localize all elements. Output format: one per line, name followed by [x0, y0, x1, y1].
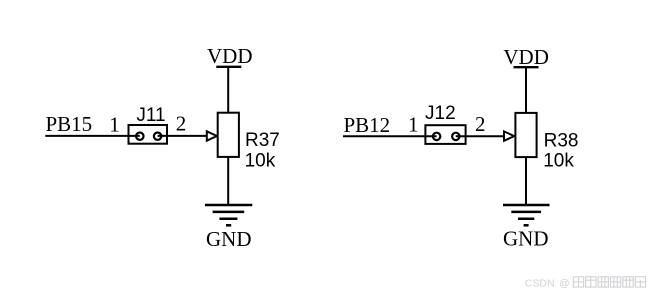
jumper J11 body: [129, 125, 168, 144]
svg-text:CSDN: CSDN: [525, 278, 555, 290]
wire PB15 to J11 pin 1: [45, 135, 140, 137]
svg-text:1: 1: [408, 113, 419, 137]
wire VDD to R37 top: [227, 67, 229, 113]
wiper arrow of R37: [207, 131, 217, 140]
svg-text:PB15: PB15: [46, 112, 93, 136]
wire R37 bottom to ground: [227, 157, 229, 205]
svg-text:VDD: VDD: [503, 45, 549, 69]
svg-text:R38: R38: [544, 130, 579, 151]
svg-text:2: 2: [475, 112, 486, 136]
jumper J12 pin 2 pad: [452, 133, 459, 140]
svg-text:GND: GND: [503, 227, 549, 251]
jumper J12 pin 1 pad: [433, 133, 440, 140]
jumper J11 pin 1 pad: [136, 133, 143, 140]
svg-text:J12: J12: [425, 103, 456, 124]
potentiometer R38 body: [515, 113, 536, 157]
svg-text:2: 2: [176, 112, 187, 136]
svg-text:@: @: [559, 278, 570, 290]
potentiometer R37 body: [218, 113, 239, 157]
wire VDD to R38 top: [525, 67, 527, 113]
power VDD bar (left): [216, 66, 241, 68]
svg-text:GND: GND: [206, 227, 252, 251]
svg-text:10k: 10k: [543, 151, 574, 172]
svg-text:1: 1: [109, 113, 120, 137]
jumper J11 pin 2 pad: [154, 133, 161, 140]
ground symbol (right): [503, 205, 550, 225]
watermark CJK glyph proxies: [573, 277, 645, 287]
wire R38 bottom to ground: [525, 157, 527, 205]
wire J11 pin 2 to R37 wiper: [158, 135, 207, 137]
svg-text:PB12: PB12: [344, 113, 391, 137]
ground symbol (left): [205, 205, 252, 225]
svg-text:R37: R37: [245, 130, 280, 151]
jumper J12 body: [425, 125, 465, 144]
svg-text:VDD: VDD: [207, 44, 253, 68]
wiper arrow of R38: [504, 131, 514, 140]
svg-text:J11: J11: [136, 105, 165, 126]
svg-text:10k: 10k: [245, 150, 276, 171]
wire PB12 to J12 pin 1: [343, 135, 437, 137]
power VDD bar (right): [514, 66, 539, 68]
wire J12 pin 2 to R38 wiper: [456, 135, 504, 137]
